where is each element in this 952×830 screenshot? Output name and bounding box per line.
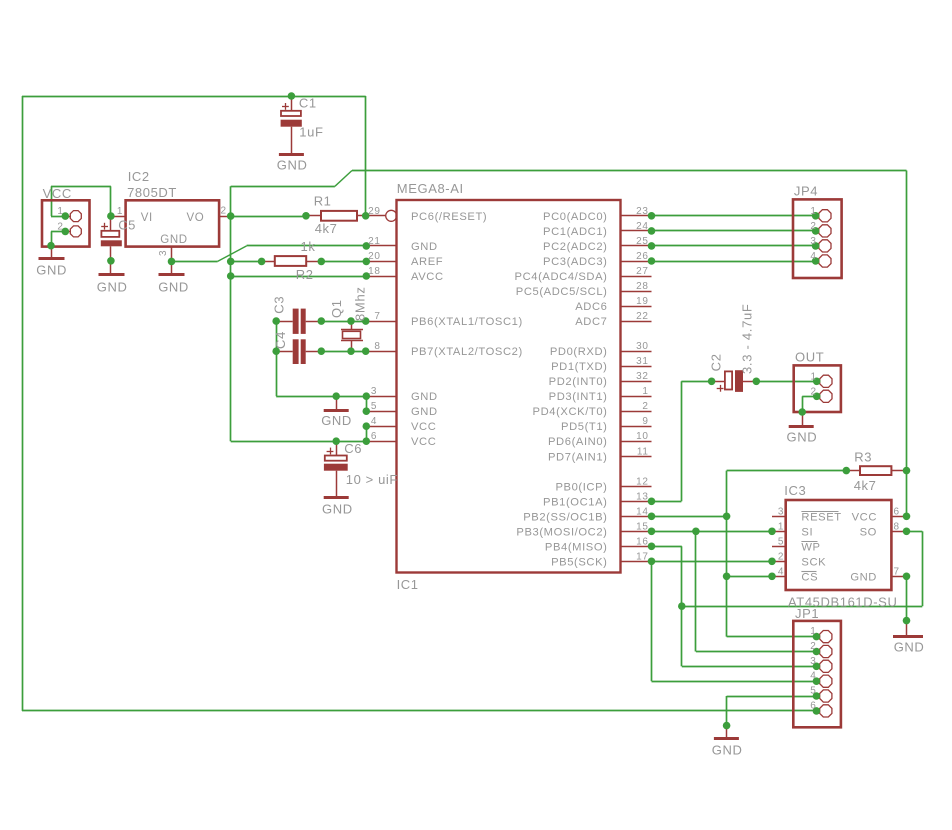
- svg-text:GND: GND: [322, 502, 353, 517]
- svg-text:1: 1: [811, 371, 817, 382]
- svg-text:9: 9: [642, 416, 648, 427]
- svg-text:4: 4: [810, 251, 816, 262]
- svg-text:5: 5: [810, 686, 816, 697]
- svg-text:1: 1: [117, 206, 123, 217]
- svg-text:8: 8: [374, 341, 380, 352]
- svg-text:2: 2: [811, 386, 817, 397]
- svg-text:1: 1: [57, 206, 63, 217]
- svg-text:PB2(SS/OC1B): PB2(SS/OC1B): [523, 511, 607, 523]
- svg-text:24: 24: [636, 221, 648, 232]
- svg-text:GND: GND: [97, 279, 128, 294]
- svg-text:12: 12: [636, 476, 648, 487]
- svg-text:CS: CS: [801, 571, 818, 583]
- svg-text:3: 3: [371, 386, 377, 397]
- svg-text:PB0(ICP): PB0(ICP): [555, 481, 607, 493]
- svg-text:6: 6: [810, 700, 816, 711]
- svg-text:17: 17: [636, 551, 648, 562]
- svg-text:PD5(T1): PD5(T1): [561, 421, 607, 433]
- svg-text:6: 6: [371, 431, 377, 442]
- svg-text:6: 6: [894, 506, 900, 517]
- svg-text:21: 21: [368, 236, 380, 247]
- svg-text:3.3 - 4.7uF: 3.3 - 4.7uF: [740, 303, 755, 374]
- svg-text:R3: R3: [854, 449, 872, 464]
- svg-text:2: 2: [221, 206, 227, 217]
- svg-text:10: 10: [636, 431, 648, 442]
- svg-text:2: 2: [642, 401, 648, 412]
- svg-text:OUT: OUT: [795, 349, 824, 364]
- svg-text:10 > uiF: 10 > uiF: [346, 472, 398, 487]
- svg-text:18: 18: [368, 266, 380, 277]
- svg-text:PB6(XTAL1/TOSC1): PB6(XTAL1/TOSC1): [411, 316, 523, 328]
- svg-text:PD0(RXD): PD0(RXD): [550, 346, 608, 358]
- svg-text:1: 1: [810, 206, 816, 217]
- svg-text:PC2(ADC2): PC2(ADC2): [543, 241, 607, 253]
- svg-text:PD6(AIN0): PD6(AIN0): [548, 436, 608, 448]
- svg-text:4k7: 4k7: [854, 478, 877, 493]
- svg-text:C3: C3: [272, 296, 287, 314]
- svg-text:PC5(ADC5/SCL): PC5(ADC5/SCL): [516, 286, 608, 298]
- svg-text:7: 7: [894, 566, 900, 577]
- svg-text:GND: GND: [411, 241, 438, 253]
- svg-text:IC1: IC1: [397, 577, 419, 592]
- svg-text:PC1(ADC1): PC1(ADC1): [543, 226, 607, 238]
- svg-text:GND: GND: [158, 279, 189, 294]
- svg-text:1: 1: [778, 521, 784, 532]
- svg-text:PD4(XCK/T0): PD4(XCK/T0): [533, 406, 608, 418]
- svg-text:SI: SI: [801, 526, 813, 538]
- svg-text:GND: GND: [36, 263, 67, 278]
- svg-text:JP4: JP4: [794, 184, 818, 199]
- svg-text:SO: SO: [860, 526, 877, 538]
- svg-text:2: 2: [810, 221, 816, 232]
- svg-text:GND: GND: [160, 234, 187, 246]
- svg-text:8Mhz: 8Mhz: [353, 286, 368, 321]
- svg-text:30: 30: [636, 341, 648, 352]
- svg-text:3: 3: [810, 656, 816, 667]
- svg-text:ADC6: ADC6: [575, 301, 607, 313]
- svg-text:3: 3: [810, 236, 816, 247]
- svg-text:PB3(MOSI/OC2): PB3(MOSI/OC2): [516, 526, 607, 538]
- svg-text:1k: 1k: [301, 239, 316, 254]
- svg-text:GND: GND: [712, 743, 743, 758]
- svg-text:C2: C2: [709, 353, 724, 371]
- svg-text:25: 25: [636, 236, 648, 247]
- svg-text:2: 2: [57, 221, 63, 232]
- svg-text:AREF: AREF: [411, 256, 443, 268]
- svg-text:GND: GND: [321, 413, 352, 428]
- svg-text:1: 1: [810, 626, 816, 637]
- svg-text:28: 28: [636, 281, 648, 292]
- svg-text:VCC: VCC: [411, 421, 436, 433]
- svg-text:PC0(ADC0): PC0(ADC0): [543, 211, 607, 223]
- svg-text:26: 26: [636, 251, 648, 262]
- svg-text:PD2(INT0): PD2(INT0): [549, 376, 608, 388]
- svg-text:PC4(ADC4/SDA): PC4(ADC4/SDA): [515, 271, 608, 283]
- svg-text:PD3(INT1): PD3(INT1): [549, 391, 608, 403]
- svg-text:1: 1: [642, 386, 648, 397]
- svg-text:VCC: VCC: [411, 436, 436, 448]
- svg-text:C1: C1: [299, 96, 317, 111]
- svg-text:ADC7: ADC7: [575, 316, 607, 328]
- svg-text:GND: GND: [787, 430, 818, 445]
- svg-text:PC3(ADC3): PC3(ADC3): [543, 256, 607, 268]
- svg-text:GND: GND: [894, 639, 925, 654]
- svg-text:5: 5: [778, 536, 784, 547]
- svg-text:3: 3: [158, 250, 169, 256]
- svg-text:C4: C4: [273, 331, 288, 349]
- svg-text:PD7(AIN1): PD7(AIN1): [548, 451, 608, 463]
- svg-text:4: 4: [371, 416, 377, 427]
- svg-text:PD1(TXD): PD1(TXD): [551, 361, 607, 373]
- svg-text:2: 2: [778, 551, 784, 562]
- svg-text:C6: C6: [344, 441, 362, 456]
- svg-text:JP1: JP1: [795, 606, 819, 621]
- svg-text:RESET: RESET: [801, 511, 841, 523]
- svg-text:VO: VO: [187, 212, 205, 224]
- svg-text:20: 20: [368, 251, 380, 262]
- svg-text:C5: C5: [118, 217, 136, 232]
- svg-text:MEGA8-AI: MEGA8-AI: [397, 181, 464, 196]
- svg-text:Q1: Q1: [329, 299, 344, 318]
- svg-text:WP: WP: [801, 541, 820, 553]
- svg-text:PB4(MISO): PB4(MISO): [545, 541, 608, 553]
- svg-text:AVCC: AVCC: [411, 271, 444, 283]
- svg-text:7805DT: 7805DT: [127, 185, 177, 200]
- svg-text:SCK: SCK: [801, 556, 826, 568]
- svg-text:5: 5: [371, 401, 377, 412]
- svg-text:GND: GND: [277, 158, 308, 173]
- svg-text:R2: R2: [296, 267, 314, 282]
- svg-text:16: 16: [636, 536, 648, 547]
- svg-text:VCC: VCC: [43, 186, 72, 201]
- svg-text:4: 4: [778, 566, 784, 577]
- svg-text:4: 4: [810, 671, 816, 682]
- svg-text:PB7(XTAL2/TOSC2): PB7(XTAL2/TOSC2): [411, 346, 523, 358]
- svg-text:22: 22: [636, 311, 648, 322]
- svg-text:IC3: IC3: [784, 483, 806, 498]
- svg-text:1uF: 1uF: [299, 125, 323, 140]
- svg-text:8: 8: [894, 521, 900, 532]
- svg-text:31: 31: [636, 356, 648, 367]
- svg-text:23: 23: [636, 206, 648, 217]
- svg-text:19: 19: [636, 296, 648, 307]
- svg-text:27: 27: [636, 266, 648, 277]
- svg-text:2: 2: [810, 641, 816, 652]
- svg-text:VI: VI: [141, 212, 153, 224]
- svg-text:GND: GND: [411, 391, 438, 403]
- svg-text:29: 29: [368, 206, 380, 217]
- svg-text:11: 11: [637, 446, 649, 457]
- svg-text:GND: GND: [850, 571, 877, 583]
- svg-text:GND: GND: [411, 406, 438, 418]
- svg-text:VCC: VCC: [852, 511, 877, 523]
- svg-text:7: 7: [374, 311, 380, 322]
- svg-text:4k7: 4k7: [315, 221, 338, 236]
- svg-text:14: 14: [636, 506, 648, 517]
- svg-text:PB5(SCK): PB5(SCK): [551, 556, 607, 568]
- svg-text:IC2: IC2: [128, 169, 150, 184]
- svg-text:PC6(/RESET): PC6(/RESET): [411, 211, 487, 223]
- svg-text:32: 32: [636, 371, 648, 382]
- svg-text:R1: R1: [314, 194, 332, 209]
- svg-text:PB1(OC1A): PB1(OC1A): [543, 496, 607, 508]
- svg-text:15: 15: [636, 521, 648, 532]
- svg-text:3: 3: [778, 506, 784, 517]
- svg-text:13: 13: [636, 491, 648, 502]
